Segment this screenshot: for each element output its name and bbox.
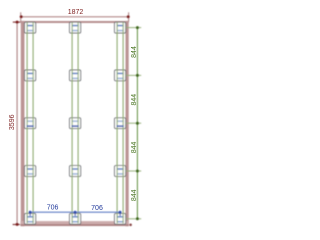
svg-text:844: 844 (131, 46, 138, 58)
svg-text:706: 706 (91, 205, 103, 212)
svg-text:844: 844 (131, 141, 138, 153)
svg-text:844: 844 (131, 189, 138, 201)
svg-text:844: 844 (131, 94, 138, 106)
svg-text:3596: 3596 (9, 114, 16, 130)
svg-text:706: 706 (47, 204, 59, 211)
svg-text:1872: 1872 (68, 9, 84, 16)
